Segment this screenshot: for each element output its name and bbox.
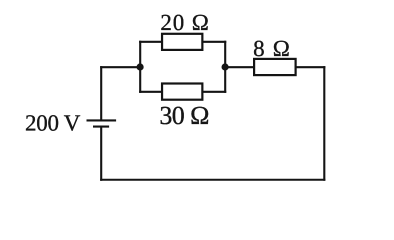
svg-text:200 V: 200 V bbox=[25, 110, 81, 135]
svg-text:30 Ω: 30 Ω bbox=[159, 101, 209, 130]
svg-text:8 Ω: 8 Ω bbox=[253, 36, 290, 61]
svg-text:20 Ω: 20 Ω bbox=[160, 10, 209, 35]
